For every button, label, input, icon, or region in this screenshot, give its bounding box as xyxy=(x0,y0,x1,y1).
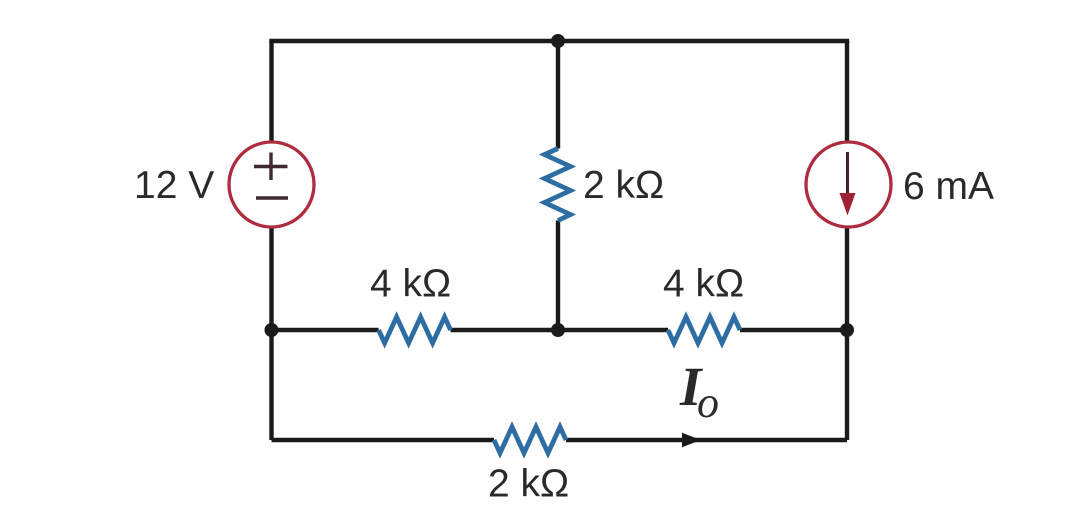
svg-text:o: o xyxy=(697,378,719,427)
svg-text:2 kΩ: 2 kΩ xyxy=(488,463,569,506)
svg-text:2 kΩ: 2 kΩ xyxy=(583,164,664,207)
svg-text:12 V: 12 V xyxy=(134,164,214,207)
svg-text:4 kΩ: 4 kΩ xyxy=(663,263,744,306)
svg-text:4 kΩ: 4 kΩ xyxy=(370,263,451,306)
svg-text:6 mA: 6 mA xyxy=(903,165,994,208)
